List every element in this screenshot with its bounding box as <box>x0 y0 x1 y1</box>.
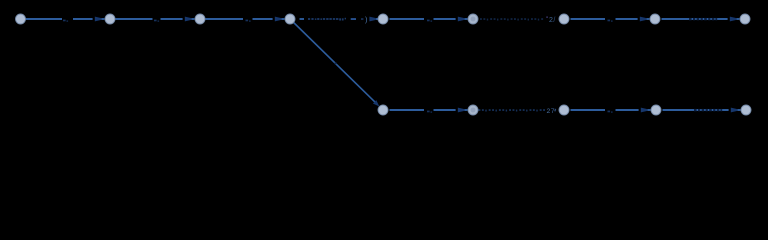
wire edge T3-T4 segment 1 <box>206 18 244 20</box>
node B2 <box>468 105 478 115</box>
svg-text:7: 7 <box>551 108 555 115</box>
wire edge T5-T6 segment 1 <box>390 18 425 20</box>
label edge T6-T7 faint dash text <box>480 18 543 20</box>
node T5 <box>378 14 388 24</box>
wire edge T4-B1 diagonal <box>294 23 375 103</box>
wire edge B4-B5 <box>663 109 729 111</box>
wire edge T7-T8 segment 1 <box>571 18 606 20</box>
wire edge T2-T3 segment 2 <box>161 18 183 20</box>
wire edge T7-T8 segment 2 <box>616 18 638 20</box>
label edge T6-T7 purple quote <box>547 17 548 18</box>
wire edge B3-B4 stub <box>647 109 650 111</box>
wire edge T1-T2 segment 1 <box>26 18 63 20</box>
svg-text:2: 2 <box>549 17 553 24</box>
wire edge T8-T9 stub <box>736 18 739 20</box>
wire edge T3-T4 stub <box>281 18 284 20</box>
arrowhead edge B3-B4 <box>641 108 648 113</box>
node B1 <box>378 105 388 115</box>
wire edge T4-T5 stub after node <box>300 18 305 20</box>
arrowhead edge T3-T4 <box>275 17 282 22</box>
wire edge T2-T3 segment 1 <box>116 18 153 20</box>
node T2 <box>105 14 115 24</box>
node T3 <box>195 14 205 24</box>
label edge T5-T6 <box>427 20 430 22</box>
label edge B3-B4 <box>608 111 611 113</box>
label edge B2-B3 faint dash text <box>479 109 546 111</box>
node T1 <box>16 14 26 24</box>
wire edge T5-T6 segment 2 <box>434 18 456 20</box>
arrowhead edge B1-B2 <box>458 108 465 113</box>
wire edge T1-T2 stub <box>101 18 104 20</box>
node T8 <box>650 14 660 24</box>
node B5 <box>741 105 751 115</box>
wire edge B3-B4 segment 1 <box>571 109 606 111</box>
node T4 <box>285 14 295 24</box>
label edge T4-T5 dash text <box>308 18 346 21</box>
node B2 darker centre <box>471 108 476 113</box>
node B3 <box>559 105 569 115</box>
wire edge B4-B5 stub <box>737 109 740 111</box>
label edge T4-B1 <box>335 63 337 65</box>
wire edge B3-B4 segment 2 <box>616 109 639 111</box>
label edge T3-T4 <box>246 20 249 22</box>
label edge T7-T8 <box>608 20 611 22</box>
label edge B4-B5 dark overlay text on line <box>694 109 722 111</box>
wire edge T7-T8 stub <box>646 18 649 20</box>
wire edge T4-T5 stub <box>376 18 379 20</box>
node T7 <box>559 14 569 24</box>
wire edge B1-B2 stub <box>464 109 467 111</box>
node B4 <box>651 105 661 115</box>
arrowhead edge T7-T8 <box>640 17 647 22</box>
label edge T1-T2 <box>63 20 66 22</box>
arrowhead edge T4-T5 <box>369 17 376 22</box>
wire edge B1-B2 segment 2 <box>434 109 456 111</box>
wire edge T2-T3 stub <box>191 18 194 20</box>
svg-text:/: / <box>553 17 555 24</box>
arrowhead edge T5-T6 <box>458 17 465 22</box>
wire edge T8-T9 <box>662 18 728 20</box>
wire edge T1-T2 segment 2 <box>73 18 93 20</box>
wire edge T5-T6 stub <box>464 18 467 20</box>
wire edge T3-T4 segment 2 <box>253 18 273 20</box>
node T6 <box>468 14 478 24</box>
label edge T2-T3 <box>154 20 157 22</box>
arrowhead edge T1-T2 <box>95 17 102 22</box>
arrowhead edge T8-T9 <box>730 17 737 22</box>
label edge T8-T9 dark overlay text on line <box>689 18 717 20</box>
label edge B1-B2 <box>427 111 430 113</box>
wire edge B1-B2 segment 1 <box>390 109 425 111</box>
node T6 darker centre <box>471 17 476 22</box>
arrowhead edge T2-T3 <box>185 17 192 22</box>
arrowhead edge B4-B5 <box>731 108 738 113</box>
arrowhead edge T4-B1 <box>373 100 380 106</box>
label edge T4-T5 mid dash <box>351 18 356 20</box>
node T9 <box>740 14 750 24</box>
